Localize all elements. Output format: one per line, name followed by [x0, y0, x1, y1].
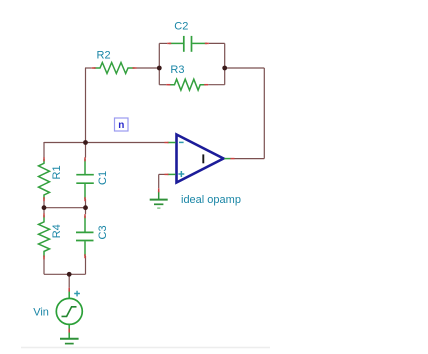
pin C1 top — [84, 157, 86, 161]
svg-text:R2: R2 — [97, 49, 111, 61]
op-amp U1 triangle — [177, 135, 224, 183]
junction node n on main rail — [83, 140, 88, 145]
wire from R2 left corner down to main rail — [85, 68, 87, 143]
capacitor C2 — [169, 36, 207, 52]
wire R3 right pin to right rail — [208, 84, 225, 86]
pin C2 right — [205, 42, 209, 44]
wire rail3 bottom — [44, 273, 86, 275]
wire C2 right pin to right rail — [209, 42, 225, 44]
pin C2 left — [167, 42, 171, 44]
capacitor C1 — [76, 159, 94, 199]
wire C1 top — [85, 143, 87, 158]
pin R4 bottom — [43, 255, 45, 259]
wire left rail to C2 left pin — [159, 42, 167, 44]
wire main input rail horizontal — [44, 142, 165, 144]
wire R1 bottom — [43, 199, 45, 208]
wire C3 bottom — [85, 256, 87, 274]
op-amp minus input lead — [168, 142, 176, 144]
pin C1 bottom — [84, 197, 86, 201]
wire down to Vin — [68, 274, 70, 287]
op-amp plus input lead — [168, 173, 176, 175]
pin op-amp minus — [165, 142, 169, 144]
junction node at right of RC box — [222, 66, 227, 71]
source Vin — [56, 290, 82, 339]
pin C3 bottom — [84, 254, 86, 258]
wire op-amp plus input to corner — [159, 173, 165, 175]
wire R1 top — [43, 142, 45, 158]
op-amp internal I mark — [202, 154, 204, 163]
svg-text:C3: C3 — [97, 225, 109, 239]
wire R2 right pin to left feedback node — [137, 67, 160, 69]
wire left rail to R3 left pin — [159, 84, 166, 86]
svg-text:R1: R1 — [51, 165, 63, 179]
junction node above Vin — [67, 272, 72, 277]
pin R4 top — [43, 213, 45, 217]
wire C3 top — [85, 208, 87, 215]
pin op-amp output — [231, 158, 235, 160]
wire C1 bottom — [85, 199, 87, 208]
pin op-amp plus — [165, 173, 169, 175]
svg-text:ideal opamp: ideal opamp — [181, 194, 241, 206]
node n box — [115, 118, 129, 131]
wire left rail of parallel RC box — [158, 43, 160, 84]
wire rail2 between R1/C1 bottoms — [44, 207, 86, 209]
wire feedback vertical down to output — [263, 68, 265, 159]
junction node rail2 left — [42, 205, 47, 210]
svg-text:Vin: Vin — [33, 306, 49, 318]
svg-text:R4: R4 — [51, 224, 63, 238]
pin R1 bottom — [43, 197, 45, 201]
ground below Vin — [60, 339, 79, 344]
pin R1 top — [43, 157, 45, 161]
pin R3 right — [204, 84, 208, 86]
resistor R4 — [39, 215, 50, 257]
source plus sign — [74, 291, 80, 297]
junction node rail2 right — [83, 205, 88, 210]
pin R3 left — [166, 84, 170, 86]
wire right rail of parallel RC box — [224, 43, 226, 84]
separator line bottom — [21, 347, 270, 349]
pin ground — [158, 188, 160, 192]
svg-text:C2: C2 — [174, 21, 188, 33]
svg-text:n: n — [118, 120, 124, 131]
resistor R1 — [39, 159, 50, 199]
pin C3 top — [84, 214, 86, 218]
wire feedback top horizontal — [225, 67, 265, 69]
svg-text:C1: C1 — [97, 171, 109, 185]
capacitor C3 — [76, 216, 94, 256]
pin Vin bottom — [68, 329, 70, 333]
wire R4 bottom — [43, 257, 45, 274]
op-amp plus sign — [178, 171, 184, 177]
resistor R3 — [168, 79, 206, 90]
wire R4 top — [43, 208, 45, 214]
junction node at left of RC box — [157, 66, 162, 71]
wire corner to R2 left pin — [85, 67, 92, 69]
pin marks (red) — [44, 43, 235, 332]
op-amp output lead — [224, 158, 230, 160]
ground at op-amp plus input — [150, 191, 168, 208]
wire op-amp output to feedback — [234, 158, 264, 160]
pin Vin top — [68, 288, 70, 292]
wire corner down to ground pin — [158, 174, 160, 188]
svg-text:R3: R3 — [170, 64, 184, 76]
pin R2 left — [92, 67, 96, 69]
op-amp minus sign — [179, 141, 184, 143]
resistor R2 — [94, 63, 135, 74]
pin R2 right — [133, 67, 137, 69]
